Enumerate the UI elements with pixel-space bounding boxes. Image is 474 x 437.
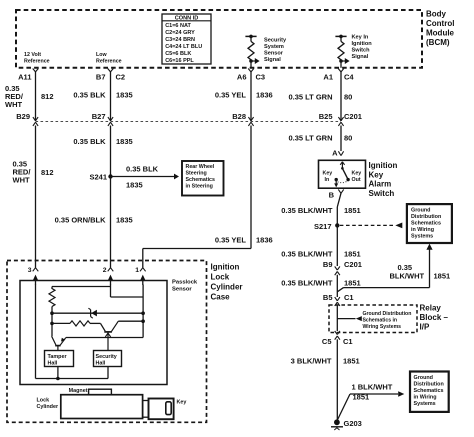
key head	[149, 399, 174, 420]
splice S241	[89, 173, 112, 182]
terminal A6/C3 (BCM)	[237, 69, 265, 82]
svg-text:Key: Key	[177, 400, 187, 406]
svg-text:BLK/WHT: BLK/WHT	[390, 272, 425, 281]
svg-text:C5=6 BLK: C5=6 BLK	[165, 51, 191, 57]
wire 0.35 BLK/WHT 1851 (B to S217)	[281, 193, 360, 225]
wire 0.35 RED/WHT 812 segment 1	[5, 72, 54, 121]
svg-text:A11: A11	[18, 73, 31, 82]
svg-text:Schematics: Schematics	[186, 177, 215, 183]
wire tamper hall to ground run	[57, 367, 59, 379]
svg-text:System: System	[264, 44, 284, 50]
svg-text:Key: Key	[352, 171, 362, 177]
svg-text:Module: Module	[426, 29, 455, 38]
svg-text:C4: C4	[344, 73, 354, 82]
svg-text:C3: C3	[256, 73, 266, 82]
svg-text:CONN ID: CONN ID	[175, 16, 199, 22]
lock cylinder body	[61, 395, 143, 419]
svg-text:1851: 1851	[344, 206, 361, 215]
resistor R2 base (passlock internal)	[52, 321, 105, 331]
wire S241 to rear wheel steering (0.35 BLK 1835)	[113, 165, 180, 190]
svg-text:Key: Key	[369, 170, 384, 179]
svg-text:812: 812	[41, 92, 54, 101]
svg-text:1835: 1835	[116, 91, 133, 100]
connector pin 1 into case	[135, 267, 139, 274]
svg-text:B: B	[329, 191, 335, 200]
svg-text:C1: C1	[344, 293, 354, 302]
svg-text:1851: 1851	[353, 393, 370, 402]
label Passlock Sensor	[172, 280, 198, 293]
wire security hall to ground run	[107, 367, 109, 379]
svg-text:2: 2	[103, 267, 107, 274]
resistor R1 (passlock internal)	[49, 287, 55, 314]
svg-text:C3=24 BRN: C3=24 BRN	[165, 37, 195, 43]
label Ignition Lock Cylinder Case	[211, 263, 243, 302]
connector pin 2 into case	[103, 267, 107, 274]
wire pin2 internal	[110, 285, 112, 298]
svg-text:C2=24 GRY: C2=24 GRY	[165, 30, 195, 36]
svg-text:Ignition: Ignition	[352, 41, 373, 47]
svg-text:A6: A6	[237, 73, 247, 82]
wire resistor bottom continues	[51, 313, 53, 336]
svg-text:Rear Wheel: Rear Wheel	[186, 164, 215, 170]
svg-text:Signal: Signal	[352, 54, 369, 60]
splice S217	[314, 222, 340, 231]
wires pins to passlock sensor	[33, 249, 39, 286]
svg-text:Cylinder: Cylinder	[211, 283, 243, 292]
connector C5 C1	[322, 331, 353, 346]
BCM dashed outline	[16, 10, 422, 68]
svg-text:B7: B7	[96, 73, 106, 82]
connector B28	[232, 112, 253, 126]
key slot	[166, 402, 171, 415]
svg-text:B25: B25	[319, 112, 333, 121]
wire pin2 to pin1 line	[111, 296, 144, 298]
label Key In Ignition Switch Signal	[352, 35, 373, 61]
svg-text:Ground Distribution: Ground Distribution	[363, 311, 412, 317]
svg-text:1836: 1836	[256, 91, 273, 100]
connector B29	[16, 112, 38, 126]
svg-text:Sensor: Sensor	[172, 287, 192, 293]
svg-text:in Wiring: in Wiring	[411, 227, 434, 233]
branch wire 0.35 BLK/WHT 1851 to ground distribution (upper)	[337, 244, 450, 292]
passlock sensor box	[20, 281, 167, 385]
svg-text:Reference: Reference	[96, 59, 122, 65]
svg-text:Hall: Hall	[96, 361, 106, 367]
svg-text:0.35 BLK: 0.35 BLK	[73, 137, 106, 146]
transistor Q1 tamper	[52, 336, 66, 350]
svg-text:Distribution: Distribution	[411, 214, 441, 220]
connector B25 C201	[319, 112, 362, 126]
svg-text:B29: B29	[16, 112, 30, 121]
svg-text:812: 812	[41, 168, 54, 177]
wire 0.35 BLK/WHT 1851 (B9 to B5)	[281, 275, 360, 297]
svg-text:1835: 1835	[116, 216, 133, 225]
svg-text:Key: Key	[323, 171, 333, 177]
svg-text:I/P: I/P	[420, 323, 430, 332]
svg-text:Systems: Systems	[414, 401, 436, 407]
wire 0.35 ORN/BLK 1835 (S241 to pin 2)	[55, 177, 133, 249]
svg-text:S217: S217	[314, 222, 332, 231]
svg-text:in Steering: in Steering	[186, 183, 213, 189]
connector B27	[92, 112, 113, 126]
label Low Reference	[96, 52, 122, 65]
label Body Control Module (BCM)	[426, 10, 455, 48]
svg-text:1836: 1836	[256, 236, 273, 245]
wire 0.35 RED/WHT 812 segment 2	[13, 126, 54, 249]
svg-text:Cylinder: Cylinder	[37, 404, 59, 410]
terminal A11 (BCM)	[18, 69, 38, 82]
tamper hall sensor	[45, 351, 74, 367]
magnet	[69, 388, 112, 395]
svg-text:Security: Security	[96, 354, 117, 360]
svg-text:Low: Low	[96, 52, 107, 58]
wire emitter run to pin1	[66, 337, 143, 339]
node B (switch output)	[329, 189, 344, 199]
label 12 Volt Reference	[24, 52, 50, 65]
wire 0.35 LT GRN 80 segment 2	[288, 126, 352, 152]
svg-text:Ground: Ground	[414, 375, 433, 381]
svg-text:Hall: Hall	[48, 361, 58, 367]
svg-text:1: 1	[135, 267, 139, 274]
svg-text:Schematics: Schematics	[411, 221, 441, 227]
wire 0.35 YEL 1836 segment 2	[143, 126, 273, 249]
svg-text:1 BLK/WHT: 1 BLK/WHT	[352, 383, 393, 392]
node ground run junction	[56, 377, 60, 381]
svg-text:0.35 BLK/WHT: 0.35 BLK/WHT	[281, 250, 333, 259]
svg-text:C2: C2	[116, 73, 126, 82]
wire zener line	[52, 312, 143, 314]
svg-text:Control: Control	[426, 19, 454, 28]
wire internal ground run	[36, 378, 109, 380]
label Relay Block - I/P	[420, 304, 449, 332]
svg-text:Relay: Relay	[420, 304, 442, 313]
resistor security system sensor (in BCM)	[245, 35, 259, 68]
svg-text:0.35 ORN/BLK: 0.35 ORN/BLK	[55, 216, 106, 225]
svg-text:A1: A1	[323, 73, 333, 82]
svg-text:Ignition: Ignition	[369, 161, 398, 170]
wire collector to pin1 line	[118, 320, 143, 322]
svg-text:1835: 1835	[116, 137, 133, 146]
callout box Ground Distribution Schematics in Wiring Systems (lower)	[410, 372, 449, 412]
wire 0.35 BLK 1835 segment 1	[73, 72, 132, 121]
svg-text:1851: 1851	[344, 250, 361, 259]
svg-text:Tamper: Tamper	[48, 354, 68, 360]
svg-text:Case: Case	[211, 293, 231, 302]
svg-text:0.35 BLK/WHT: 0.35 BLK/WHT	[281, 279, 333, 288]
node diode line left	[50, 311, 54, 315]
svg-text:1851: 1851	[344, 279, 361, 288]
svg-text:In: In	[325, 177, 330, 183]
branch wire 1 BLK/WHT 1851 to ground distribution (lower)	[337, 383, 404, 422]
svg-text:Magnet: Magnet	[69, 388, 88, 394]
svg-text:0.35 LT GRN: 0.35 LT GRN	[288, 93, 332, 102]
svg-text:Security: Security	[264, 38, 287, 44]
callout box Ground Distribution Schematics in Wiring Systems (upper)	[407, 204, 452, 243]
svg-text:Block –: Block –	[420, 313, 449, 322]
svg-text:Lock: Lock	[37, 397, 50, 403]
svg-text:0.35 LT GRN: 0.35 LT GRN	[288, 134, 332, 143]
svg-text:Body: Body	[426, 10, 447, 19]
ignition lock cylinder case dashed outline	[7, 261, 207, 423]
wire 0.35 BLK/WHT 1851 (S217 to B9)	[281, 225, 360, 266]
svg-text:80: 80	[344, 93, 352, 102]
label Lock Cylinder	[37, 397, 59, 410]
node collector junction	[141, 319, 145, 323]
node base line left	[50, 322, 54, 326]
svg-text:0.35 YEL: 0.35 YEL	[215, 91, 247, 100]
svg-text:0.35 BLK/WHT: 0.35 BLK/WHT	[281, 206, 333, 215]
svg-text:WHT: WHT	[13, 176, 30, 185]
CONN ID table	[162, 14, 211, 64]
svg-text:Distribution: Distribution	[414, 382, 444, 388]
svg-text:S241: S241	[89, 173, 107, 182]
svg-text:1835: 1835	[126, 181, 143, 190]
relay block I/P dashed outline	[329, 305, 417, 333]
svg-text:B5: B5	[323, 293, 333, 302]
dashed reference wire S217 to ground distribution	[340, 223, 403, 229]
svg-text:Ground: Ground	[411, 208, 430, 214]
node A (switch input)	[332, 149, 344, 158]
svg-text:0.35 BLK: 0.35 BLK	[126, 165, 159, 174]
svg-text:(BCM): (BCM)	[426, 38, 450, 47]
svg-text:Lock: Lock	[211, 273, 230, 282]
ground G203	[331, 419, 362, 430]
wire 0.35 BLK 1835 segment 2 (above S241)	[73, 126, 132, 177]
svg-text:C201: C201	[344, 260, 362, 269]
svg-text:1851: 1851	[434, 272, 451, 281]
zener diode D1	[88, 308, 97, 318]
wire 0.35 LT GRN 80 segment 1	[288, 72, 352, 121]
svg-text:in Wiring: in Wiring	[414, 395, 437, 401]
svg-text:B28: B28	[232, 112, 246, 121]
svg-text:0.35 BLK: 0.35 BLK	[73, 91, 106, 100]
svg-text:Signal: Signal	[264, 57, 281, 63]
label Ignition Key Alarm Switch	[369, 161, 398, 198]
svg-text:Schematics in: Schematics in	[363, 317, 398, 323]
svg-text:80: 80	[344, 134, 352, 143]
svg-text:WHT: WHT	[5, 100, 22, 109]
in-line harness connector row (dashed)	[36, 121, 342, 123]
wire through relay block	[336, 306, 338, 332]
svg-text:Schematics: Schematics	[414, 388, 444, 394]
node diode line right	[141, 311, 145, 315]
svg-text:C1: C1	[343, 337, 353, 346]
connector B9 C201	[323, 260, 362, 275]
callout box Rear Wheel Steering Schematics in Steering	[182, 161, 224, 196]
svg-text:C4=24 LT BLU: C4=24 LT BLU	[165, 44, 202, 50]
svg-text:0.35 YEL: 0.35 YEL	[215, 236, 247, 245]
ignition key alarm switch U1	[319, 160, 366, 188]
svg-text:C5: C5	[322, 337, 332, 346]
resistor key in ignition switch (in BCM)	[335, 35, 349, 68]
svg-text:Systems: Systems	[411, 234, 433, 240]
svg-text:Steering: Steering	[186, 170, 207, 176]
svg-text:Alarm: Alarm	[369, 180, 392, 189]
svg-text:Wiring Systems: Wiring Systems	[363, 324, 402, 330]
wire pin3 internal down left side	[35, 285, 37, 379]
wire 0.35 YEL 1836 segment 1	[215, 72, 273, 121]
wire resistor top to pin2	[52, 286, 111, 288]
reference arrow ground distribution in relay block	[337, 311, 411, 330]
svg-text:Out: Out	[352, 177, 361, 183]
svg-text:Switch: Switch	[352, 48, 371, 54]
svg-text:B9: B9	[323, 260, 333, 269]
terminal B7/C2 (BCM)	[96, 69, 125, 82]
security hall sensor	[94, 351, 122, 367]
svg-text:Ignition: Ignition	[211, 263, 240, 272]
svg-text:Sensor: Sensor	[264, 51, 284, 57]
transistor Q2 security	[104, 321, 118, 350]
wire pin1 internal	[142, 285, 144, 338]
svg-text:Switch: Switch	[369, 189, 395, 198]
svg-text:C201: C201	[344, 112, 362, 121]
connector pin 3 into case	[28, 267, 32, 274]
svg-text:3: 3	[28, 267, 32, 274]
svg-text:1851: 1851	[343, 357, 360, 366]
connector B5 C1	[323, 293, 354, 306]
wire 3 BLK/WHT 1851 (C5 to G203)	[291, 339, 360, 422]
svg-text:Key In: Key In	[352, 35, 369, 41]
svg-text:B27: B27	[92, 112, 106, 121]
svg-text:A: A	[332, 149, 338, 158]
svg-text:C6=16 PPL: C6=16 PPL	[165, 58, 194, 64]
svg-text:3 BLK/WHT: 3 BLK/WHT	[291, 357, 332, 366]
terminal A1/C4 (BCM)	[323, 69, 354, 82]
svg-text:12 Volt: 12 Volt	[24, 52, 41, 58]
svg-text:G203: G203	[344, 419, 362, 428]
key neck	[143, 401, 149, 418]
svg-text:Passlock: Passlock	[172, 280, 198, 286]
label Security System Sensor Signal	[264, 38, 287, 64]
svg-text:Reference: Reference	[24, 59, 50, 65]
svg-text:C1=6 NAT: C1=6 NAT	[165, 23, 191, 29]
